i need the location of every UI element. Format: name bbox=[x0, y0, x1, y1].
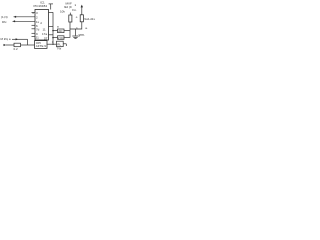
op-amp U1 bbox=[35, 10, 49, 41]
relay box bbox=[57, 41, 64, 46]
svg-text:a.: a. bbox=[85, 26, 88, 30]
wire bottom arrow in bbox=[3, 44, 6, 46]
ground bbox=[72, 35, 78, 37]
wire bbox=[21, 44, 35, 46]
svg-text:RL: RL bbox=[57, 42, 61, 46]
svg-text:LYD: LYD bbox=[58, 36, 64, 40]
svg-text:PIC16F84: PIC16F84 bbox=[34, 4, 48, 8]
wire pin tick bbox=[32, 32, 36, 34]
svg-text:(1,N): (1,N) bbox=[1, 15, 8, 19]
resistor R5 bbox=[14, 43, 21, 47]
wire bbox=[53, 30, 58, 32]
wire bbox=[69, 13, 71, 15]
wire bbox=[70, 22, 82, 36]
wire L-branch bbox=[27, 39, 29, 45]
wire bbox=[13, 20, 36, 22]
node arrow A bbox=[16, 38, 19, 40]
wire pin tick right bbox=[49, 34, 54, 36]
wire pin tick bbox=[32, 12, 36, 14]
wire pin tick bbox=[32, 36, 36, 38]
node J2 bbox=[52, 37, 54, 39]
svg-text:5T: 5T bbox=[44, 37, 48, 41]
svg-text:9xd-d1x: 9xd-d1x bbox=[84, 17, 95, 21]
wire pin tick bbox=[32, 28, 36, 30]
node IN2 bbox=[13, 20, 16, 22]
wire bbox=[64, 30, 70, 32]
wire bbox=[63, 43, 66, 45]
svg-text:Dfx: Dfx bbox=[2, 20, 7, 24]
wire pin tick right top bbox=[49, 12, 54, 14]
svg-text:7d: 7d bbox=[36, 28, 40, 32]
wire bbox=[47, 43, 57, 45]
svg-text:i9d (9: i9d (9 bbox=[64, 5, 72, 9]
node IN1 bbox=[14, 16, 17, 18]
wire bbox=[14, 16, 36, 18]
svg-text:21: 21 bbox=[36, 36, 40, 40]
svg-text:M lrfq a: M lrfq a bbox=[1, 37, 11, 41]
wire pin tick bbox=[32, 24, 36, 26]
svg-text:11: 11 bbox=[43, 28, 46, 32]
svg-text:TW: TW bbox=[57, 47, 62, 51]
svg-text:yrm.: yrm. bbox=[79, 33, 85, 37]
svg-text:AFTE 9: AFTE 9 bbox=[36, 44, 47, 48]
node J3 bbox=[52, 44, 53, 45]
wire pin tick right bbox=[49, 26, 54, 28]
svg-text:0.2: 0.2 bbox=[14, 47, 19, 51]
wire supply bbox=[81, 6, 83, 15]
resistor R4 bbox=[58, 36, 65, 40]
node J1 bbox=[52, 30, 54, 32]
wire rail right bbox=[69, 22, 71, 38]
wire bbox=[50, 4, 52, 10]
resistor R2 bbox=[80, 15, 83, 22]
connector K1 bbox=[35, 41, 48, 49]
wire bbox=[6, 44, 14, 46]
node VDD bbox=[49, 3, 53, 5]
wire rail bbox=[52, 12, 54, 44]
node +V arrow bbox=[81, 5, 83, 8]
resistor R3 bbox=[58, 29, 65, 33]
svg-text:Fö.: Fö. bbox=[72, 8, 77, 12]
wire bbox=[53, 37, 58, 39]
wire stub bbox=[65, 44, 67, 46]
svg-text:17a: 17a bbox=[42, 32, 47, 36]
svg-text:10k: 10k bbox=[60, 10, 65, 14]
wire label arrow bbox=[12, 38, 28, 40]
resistor R1 bbox=[69, 15, 72, 22]
wire bbox=[64, 37, 70, 39]
